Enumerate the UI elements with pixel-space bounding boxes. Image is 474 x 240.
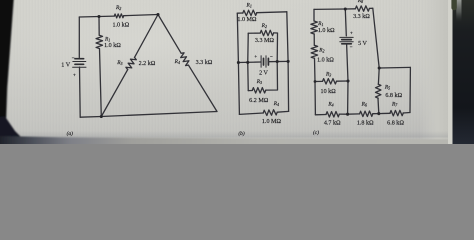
node: (c) top battery junction (344, 7, 347, 10)
node: (c) bottom junction R4/R6 (346, 113, 349, 116)
wire: (a) left rail lower (source bottom lead) (79, 67, 82, 117)
svg-text:+: + (350, 31, 353, 36)
svg-text:R4: R4 (273, 101, 279, 107)
wire: (c) R3 wire left lead (315, 80, 323, 82)
battery B2 2 V (b) (261, 56, 268, 68)
svg-text:1.0 kΩ: 1.0 kΩ (318, 28, 335, 34)
svg-text:R8: R8 (357, 0, 363, 4)
resistor R8 3.3 kΩ (c, top) (355, 6, 369, 12)
svg-text:R4: R4 (174, 59, 180, 65)
svg-text:6.8 kΩ: 6.8 kΩ (385, 93, 402, 99)
wire: (c) right edge vertical (409, 67, 411, 112)
svg-text:R2: R2 (318, 48, 324, 54)
svg-text:R1: R1 (246, 2, 252, 8)
resistor R4 3.3 kΩ (a, right slope) (179, 52, 191, 67)
wire: (b) middle wire right lead (268, 60, 288, 62)
battery B3 5 V (c) (340, 37, 353, 43)
node: (c) left edge R3 junction (314, 80, 317, 83)
svg-text:(b): (b) (238, 130, 244, 137)
svg-text:+: + (73, 73, 76, 78)
wire: (a) R1 branch upper lead (98, 17, 100, 36)
node: (b) middle wire inner-right junction (276, 60, 279, 63)
svg-text:−: − (350, 46, 353, 51)
resistor R2 1.0 kΩ (a, top) (114, 14, 123, 18)
svg-text:1 V: 1 V (61, 63, 70, 69)
wire: (a) bottom wire (80, 112, 217, 118)
resistor R4 1.0 MΩ (b, bottom) (263, 110, 277, 116)
svg-text:R1: R1 (104, 37, 110, 43)
wire: (a) R1 branch lower lead (100, 49, 102, 117)
svg-text:2 V: 2 V (259, 70, 268, 76)
wire: (b) right edge (287, 12, 289, 112)
resistor R2 1.0 kΩ (c, left edge) (311, 45, 317, 58)
svg-text:+: + (254, 55, 257, 60)
svg-text:R7: R7 (391, 101, 398, 107)
wire: (a) top wire left of R2 (79, 15, 114, 18)
resistor R3 10 kΩ (c, middle) (322, 79, 336, 84)
wire: (b) middle wire left lead (238, 61, 261, 64)
wire: (a) right slope lower lead (189, 65, 218, 111)
node: (b) middle wire outer-left junction (237, 61, 240, 64)
wire: (b) bottom edge left lead (239, 113, 263, 114)
svg-text:6.2 MΩ: 6.2 MΩ (249, 98, 269, 104)
resistor R1 1.0 kΩ (a, vertical) (96, 35, 102, 48)
wire: (c) left edge lower segment (314, 58, 317, 115)
svg-text:1.0 kΩ: 1.0 kΩ (317, 57, 334, 63)
svg-text:10 kΩ: 10 kΩ (321, 89, 337, 95)
svg-text:R2: R2 (261, 23, 267, 29)
node: apex junction (a) (156, 13, 159, 16)
wire: (c) top wire right lead (369, 7, 372, 9)
svg-text:1.0 MΩ: 1.0 MΩ (237, 17, 257, 23)
svg-text:R5: R5 (384, 85, 390, 91)
wire: (c) battery branch lower lead (347, 44, 348, 114)
svg-text:(c): (c) (313, 129, 319, 136)
svg-text:−: − (72, 57, 75, 62)
resistor R1 1.0 MΩ (b, top) (243, 10, 257, 16)
svg-text:(a): (a) (67, 130, 73, 137)
battery B1 1 V (a) (73, 59, 86, 67)
svg-text:2.2 kΩ: 2.2 kΩ (139, 61, 156, 67)
svg-text:R2: R2 (115, 5, 121, 11)
svg-text:6.8 kΩ: 6.8 kΩ (387, 120, 404, 126)
wire: (b) bottom edge right lead (277, 110, 288, 113)
wire: (c) left edge top segment (313, 9, 315, 21)
wire: (a) left slope lower lead (101, 70, 127, 117)
resistor R1 1.0 kΩ (c, left edge) (311, 21, 317, 34)
wire: (b) left edge (237, 13, 239, 114)
wire: (c) bottom wire right lead (403, 112, 410, 115)
svg-text:R3: R3 (325, 71, 331, 77)
svg-text:3.3 kΩ: 3.3 kΩ (353, 14, 370, 20)
resistor R2 3.3 MΩ (b, inner top) (260, 30, 273, 36)
wire: (b) lower-inner right vertical (266, 62, 278, 91)
svg-text:1.0 MΩ: 1.0 MΩ (262, 119, 282, 125)
wire: (c) right horizontal (379, 66, 410, 69)
wire: (b) upper-inner left vertical (247, 33, 250, 62)
wire: (b) upper-inner top edge right lead (274, 33, 278, 62)
svg-text:3.3 MΩ: 3.3 MΩ (255, 38, 275, 44)
node: (b) middle wire inner-left junction (246, 61, 249, 64)
wire: (c) left edge between R1 and R2 (313, 34, 315, 45)
svg-text:5 V: 5 V (358, 41, 367, 47)
wire: (b) top edge right lead (257, 11, 287, 14)
node: (c) bottom junction R6/R7 (377, 112, 380, 115)
svg-text:R3: R3 (256, 79, 262, 85)
resistor R3 2.2 kΩ (a, left slope) (125, 56, 137, 71)
svg-text:R6: R6 (361, 102, 367, 108)
node: top-left junction (a) (97, 15, 100, 18)
resistor R3 6.2 MΩ (b, inner bottom) (252, 88, 265, 94)
wire: (b) top edge left lead (237, 12, 243, 14)
node: (b) middle wire outer-right junction (287, 60, 290, 63)
wire: (c) bottom wire left lead (315, 114, 326, 116)
svg-text:3.3 kΩ: 3.3 kΩ (196, 60, 213, 66)
wire: (b) lower-inner bottom edge left lead (248, 90, 252, 92)
svg-text:1.0 kΩ: 1.0 kΩ (112, 23, 129, 29)
wire: (c) upper-right vertical (373, 8, 379, 68)
resistor R4 4.7 kΩ (c, bottom) (326, 111, 339, 117)
wire: (c) R5 branch upper lead (377, 68, 380, 84)
svg-text:1.8 kΩ: 1.8 kΩ (357, 120, 374, 126)
wire: (c) R5 branch lower lead (377, 98, 380, 113)
resistor R6 1.8 kΩ (c, bottom) (360, 111, 373, 117)
svg-text:R1: R1 (317, 21, 323, 27)
wire: (b) lower-inner left vertical (247, 63, 250, 91)
wire: (a) top wire right of R2 to apex (124, 15, 158, 16)
svg-text:4.7 kΩ: 4.7 kΩ (324, 120, 341, 126)
svg-text:R3: R3 (116, 60, 122, 66)
node: (c) battery/R3 junction (346, 79, 349, 82)
wire: (a) right slope upper lead (158, 15, 181, 54)
wire: (a) left rail upper (source top lead) (78, 17, 80, 58)
wire: (c) battery branch upper lead (345, 9, 346, 36)
svg-text:1.0 kΩ: 1.0 kΩ (104, 43, 121, 49)
wire: (c) bottom wire between R6 and R7 (373, 112, 390, 114)
node: (c) right upper junction (378, 66, 381, 69)
wire: (c) bottom wire between R4 and R6 (339, 113, 359, 115)
wire: (c) R3 wire right lead (337, 80, 349, 82)
wire: (c) top wire left of battery node (314, 8, 355, 11)
node: bottom junction (a) (100, 115, 103, 118)
wire: (a) left slope upper lead (135, 15, 159, 58)
svg-text:R4: R4 (327, 102, 333, 108)
resistor R7 6.8 kΩ (c, bottom) (390, 110, 403, 116)
svg-text:−: − (270, 55, 273, 60)
wire: (b) upper-inner top edge left lead (248, 32, 260, 34)
resistor R5 6.8 kΩ (c, vertical) (376, 84, 381, 98)
